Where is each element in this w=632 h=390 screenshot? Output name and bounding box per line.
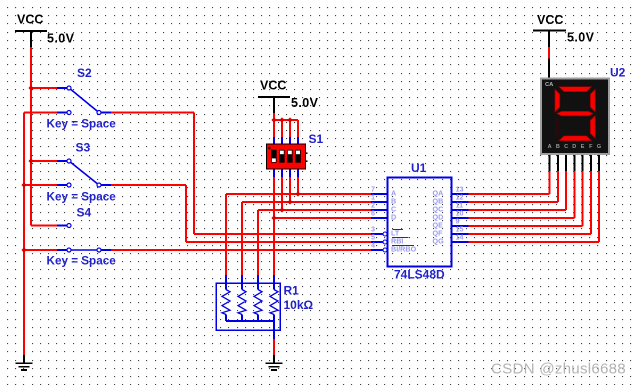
- svg-text:5.0V: 5.0V: [47, 32, 75, 46]
- svg-text:Key = Space: Key = Space: [47, 255, 117, 268]
- svg-text:S2: S2: [77, 66, 92, 80]
- svg-text:6: 6: [371, 209, 375, 218]
- svg-text:S1: S1: [309, 132, 324, 146]
- svg-text:S3: S3: [76, 141, 91, 155]
- svg-text:B: B: [556, 144, 560, 150]
- svg-text:C: C: [564, 144, 568, 150]
- svg-text:74LS48D: 74LS48D: [394, 268, 445, 282]
- svg-text:4: 4: [371, 241, 375, 250]
- svg-text:U1: U1: [411, 161, 427, 175]
- svg-text:5.0V: 5.0V: [567, 31, 595, 45]
- svg-text:R1: R1: [284, 284, 300, 298]
- svg-text:QG: QG: [433, 237, 445, 246]
- svg-text:CA: CA: [545, 82, 554, 88]
- svg-text:U2: U2: [610, 66, 626, 80]
- svg-text:VCC: VCC: [17, 13, 43, 27]
- svg-text:D: D: [572, 144, 576, 150]
- svg-text:D: D: [391, 213, 396, 222]
- svg-text:5.0V: 5.0V: [291, 96, 319, 110]
- svg-text:CSDN @zhusl6688: CSDN @zhusl6688: [491, 361, 626, 378]
- svg-text:VCC: VCC: [537, 13, 563, 27]
- svg-text:VCC: VCC: [260, 79, 286, 93]
- svg-text:Key = Space: Key = Space: [47, 191, 117, 204]
- svg-text:E: E: [581, 144, 585, 150]
- svg-text:S4: S4: [77, 206, 92, 220]
- svg-text:Key = Space: Key = Space: [47, 118, 117, 131]
- svg-text:A: A: [548, 144, 552, 150]
- svg-text:10kΩ: 10kΩ: [284, 298, 314, 312]
- svg-text:G: G: [597, 144, 601, 150]
- svg-text:14: 14: [456, 233, 464, 242]
